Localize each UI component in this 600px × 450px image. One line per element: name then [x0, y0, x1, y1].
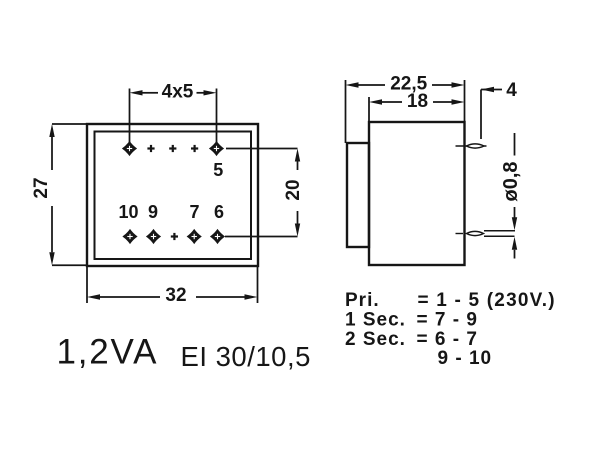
pin 7: [187, 229, 202, 244]
winding table: primary row label: [345, 290, 380, 311]
svg-text:1 Sec.: 1 Sec.: [345, 309, 406, 330]
dimension text 32: [165, 285, 186, 306]
pin 7 label: [189, 202, 199, 222]
winding table: secondary 2 row value: [417, 329, 478, 350]
top view: outer case outline: [87, 124, 258, 266]
pin 6: [210, 229, 225, 244]
dimension 18 extension line left: [368, 97, 370, 122]
svg-text:ø0,8: ø0,8: [500, 161, 522, 201]
winding table: secondary 1 row label: [345, 309, 406, 330]
pitch mark a: [147, 145, 154, 152]
svg-text:27: 27: [31, 177, 52, 198]
dimension text 4x5: [162, 82, 194, 103]
dimension 32 extension line left: [86, 267, 88, 303]
dimension 4x5 extension line right: [216, 89, 218, 144]
pin 9 label: [148, 202, 158, 222]
svg-text:6: 6: [214, 202, 224, 222]
winding table: secondary 2 row value continued: [438, 348, 493, 369]
svg-text:5: 5: [213, 160, 223, 180]
svg-text:2 Sec.: 2 Sec.: [345, 329, 406, 350]
svg-text:= 7 - 9: = 7 - 9: [417, 309, 478, 330]
dimension 32 line with arrows: [87, 294, 258, 299]
svg-text:32: 32: [165, 285, 186, 306]
svg-text:4x5: 4x5: [162, 82, 194, 103]
dimension 22,5 extension line right: [464, 80, 466, 122]
dimension 27 line with arrows: [49, 124, 54, 265]
dimension text 27: [31, 177, 52, 198]
svg-text:9 - 10: 9 - 10: [438, 348, 493, 369]
svg-text:= 1 - 5 (230V.): = 1 - 5 (230V.): [418, 290, 556, 311]
pin 5 (top row right): [209, 141, 224, 156]
winding table: primary row value: [418, 290, 556, 311]
dimension 18 line with arrows: [369, 99, 465, 104]
pitch mark b: [169, 145, 176, 152]
core type text EI 30/10,5: [181, 341, 311, 372]
dimension 27 extension line bottom: [52, 264, 87, 266]
rating text 1,2VA: [57, 333, 159, 372]
dimension 4 leader line: [481, 87, 502, 139]
side view: body outline: [369, 122, 465, 265]
dimension ø0,8 extension line top: [484, 230, 515, 232]
pin 6 label: [214, 202, 224, 222]
svg-text:10: 10: [118, 202, 138, 222]
side view: top pin body: [467, 144, 485, 148]
dimension text 18: [407, 91, 428, 112]
dimension text ø0,8: [500, 161, 522, 201]
svg-text:= 6 - 7: = 6 - 7: [417, 329, 478, 350]
dimension 27 extension line top: [52, 123, 87, 125]
dimension text 20: [283, 179, 304, 200]
pin 5 label: [213, 160, 223, 180]
svg-text:EI 30/10,5: EI 30/10,5: [181, 341, 311, 372]
dimension ø0,8 line with arrows: [512, 133, 517, 259]
dimension 22,5 line with arrows: [346, 82, 465, 87]
svg-text:7: 7: [189, 202, 199, 222]
svg-text:4: 4: [506, 80, 517, 101]
dimension ø0,8 extension line bottom: [484, 235, 515, 237]
dimension 20 extension line bottom: [225, 236, 298, 238]
dimension 4x5 extension line left: [129, 89, 131, 144]
dimension 22,5 extension line left: [345, 80, 347, 143]
side view: bottom pin body: [467, 231, 484, 235]
dimension 20 extension line top: [226, 148, 298, 150]
svg-text:Pri.: Pri.: [345, 290, 380, 311]
pitch mark c: [191, 145, 198, 152]
dimension 32 extension line right: [257, 267, 259, 303]
winding table: secondary 2 row label: [345, 329, 406, 350]
pin 10 label: [118, 202, 138, 222]
dimension text 4: [506, 80, 517, 101]
pitch mark d: [171, 233, 178, 240]
pin 9: [146, 229, 161, 244]
side view: bottom pin centerline: [456, 233, 464, 235]
svg-text:18: 18: [407, 91, 428, 112]
top view: inner case outline: [95, 132, 252, 260]
dimension 20 line with arrows: [295, 149, 300, 237]
pin 1 (top row left): [122, 141, 137, 156]
dimension 4x5 line with arrows: [130, 90, 217, 95]
winding table: secondary 1 row value: [417, 309, 478, 330]
dimension text 22,5: [390, 74, 427, 95]
svg-text:20: 20: [283, 179, 304, 200]
svg-text:1,2VA: 1,2VA: [57, 333, 159, 372]
side view: mounting flange outline: [347, 143, 369, 247]
pin 10: [122, 229, 137, 244]
svg-text:9: 9: [148, 202, 158, 222]
side view: top pin centerline: [456, 145, 487, 147]
